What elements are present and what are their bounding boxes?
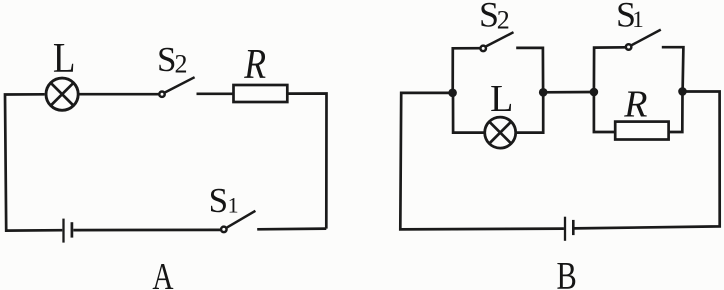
svg-text:1: 1 (228, 193, 239, 218)
svg-text:2: 2 (497, 5, 510, 34)
svg-text:L: L (490, 78, 513, 120)
svg-text:R: R (243, 42, 266, 88)
svg-text:S: S (209, 181, 228, 220)
svg-text:R: R (623, 84, 647, 126)
svg-text:A: A (152, 256, 174, 290)
svg-text:2: 2 (175, 50, 188, 79)
svg-text:1: 1 (632, 7, 644, 32)
svg-text:B: B (556, 254, 576, 290)
svg-text:L: L (53, 35, 76, 82)
